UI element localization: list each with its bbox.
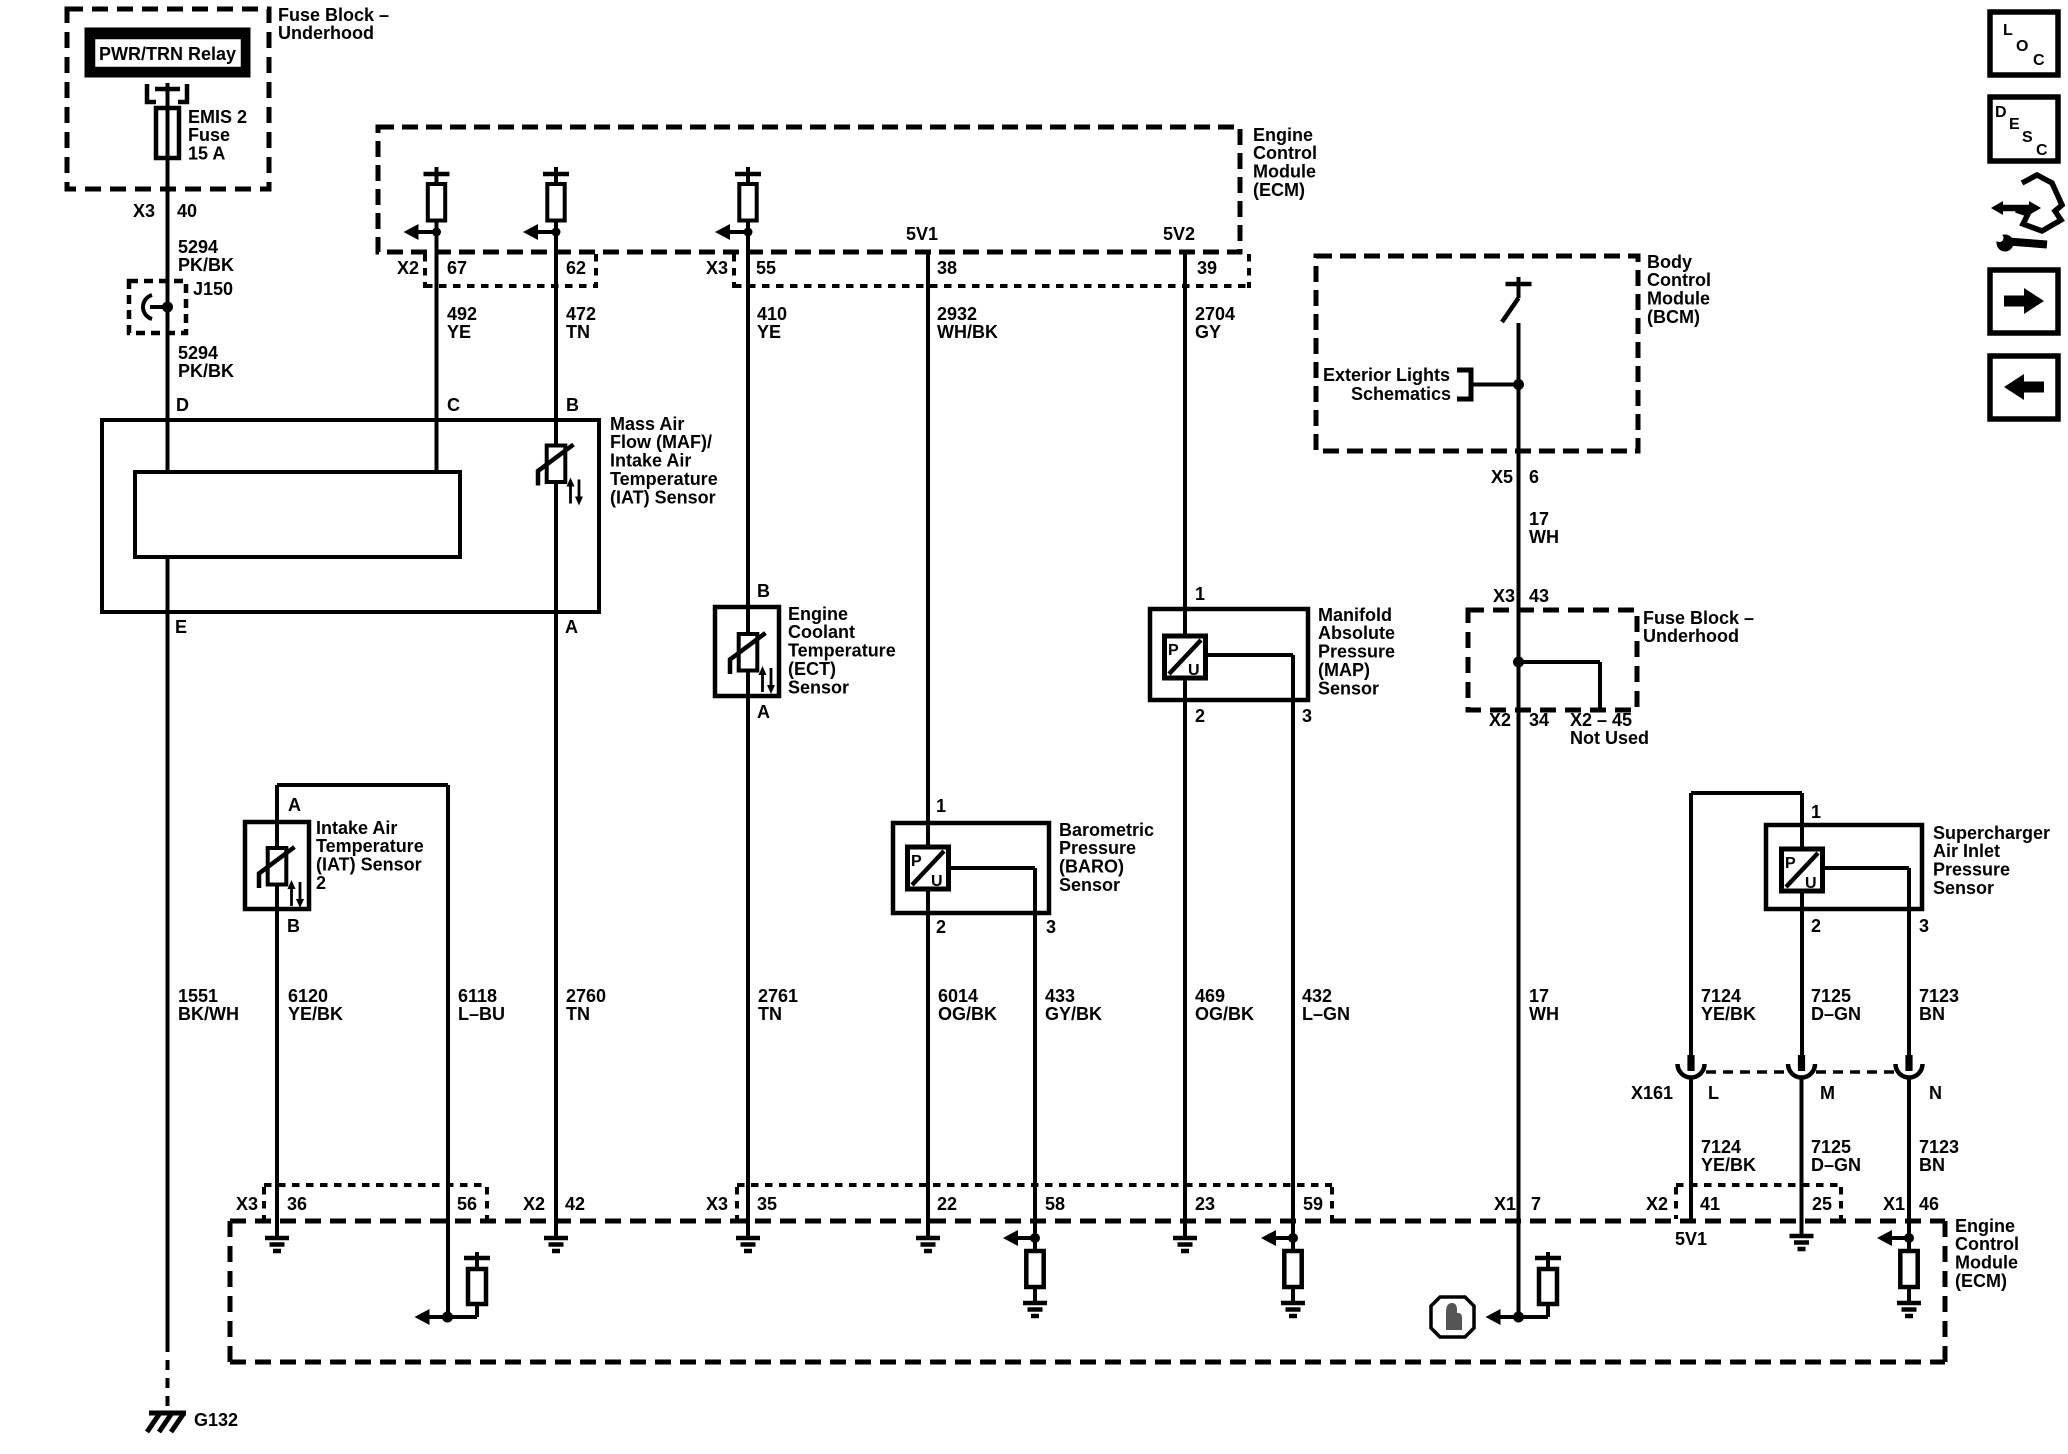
ECM driver symbol 67 bbox=[435, 167, 439, 184]
svg-text:59: 59 bbox=[1303, 1194, 1323, 1214]
svg-text:7: 7 bbox=[1531, 1194, 1541, 1214]
wire 469 OG/BK bbox=[1183, 676, 1187, 1236]
svg-text:Module: Module bbox=[1955, 1253, 2018, 1273]
svg-text:7125: 7125 bbox=[1811, 986, 1851, 1006]
resistor and arrow at 56 bbox=[429, 1315, 478, 1319]
svg-text:Pressure: Pressure bbox=[1933, 860, 2010, 880]
svg-text:Module: Module bbox=[1253, 162, 1316, 182]
svg-text:43: 43 bbox=[1529, 586, 1549, 606]
svg-text:2932: 2932 bbox=[937, 304, 977, 324]
svg-text:O: O bbox=[2016, 38, 2028, 55]
connector X161 N bbox=[1905, 1055, 1912, 1071]
svg-text:GY: GY bbox=[1195, 322, 1221, 342]
svg-text:Body: Body bbox=[1647, 252, 1692, 272]
svg-text:Air Inlet: Air Inlet bbox=[1933, 841, 2000, 861]
svg-text:3: 3 bbox=[1046, 917, 1056, 937]
svg-text:TN: TN bbox=[758, 1004, 782, 1024]
svg-text:N: N bbox=[1929, 1083, 1942, 1103]
P/U transducer BARO bbox=[908, 847, 949, 889]
fuse block underhood box bbox=[67, 9, 269, 189]
svg-text:2761: 2761 bbox=[758, 986, 798, 1006]
svg-text:55: 55 bbox=[756, 258, 776, 278]
svg-text:5V1: 5V1 bbox=[1675, 1229, 1707, 1249]
icon DESC bbox=[1990, 97, 2058, 161]
svg-text:(ECT): (ECT) bbox=[788, 659, 836, 679]
svg-text:Supercharger: Supercharger bbox=[1933, 823, 2050, 843]
svg-text:P: P bbox=[911, 853, 922, 870]
wire 492 YE bbox=[435, 252, 439, 472]
svg-text:1: 1 bbox=[1811, 802, 1821, 822]
ground at 22 bbox=[916, 1236, 940, 1241]
svg-text:2760: 2760 bbox=[566, 986, 606, 1006]
svg-text:S: S bbox=[2022, 129, 2033, 146]
wire 7125 D-GN bbox=[1800, 891, 1804, 1056]
svg-text:PWR/TRN Relay: PWR/TRN Relay bbox=[99, 44, 236, 64]
svg-text:492: 492 bbox=[447, 304, 477, 324]
svg-text:Engine: Engine bbox=[1955, 1216, 2015, 1236]
svg-text:36: 36 bbox=[287, 1194, 307, 1214]
icon arrow left bbox=[1990, 356, 2058, 419]
wire 472 TN bbox=[554, 252, 558, 445]
svg-text:6: 6 bbox=[1529, 467, 1539, 487]
svg-text:L: L bbox=[1708, 1083, 1719, 1103]
wire 1551 BK/WH bbox=[166, 557, 170, 1342]
ground at 36 bbox=[275, 1236, 279, 1237]
svg-text:Fuse: Fuse bbox=[188, 125, 230, 145]
splice J150 bbox=[129, 281, 186, 333]
svg-text:OG/BK: OG/BK bbox=[1195, 1004, 1254, 1024]
connector X161 L bbox=[1687, 1055, 1694, 1071]
svg-text:5V2: 5V2 bbox=[1163, 224, 1195, 244]
svg-text:Module: Module bbox=[1647, 289, 1710, 309]
resistor to ground at 46 bbox=[1907, 1221, 1911, 1251]
svg-text:L–BU: L–BU bbox=[458, 1004, 505, 1024]
svg-text:38: 38 bbox=[937, 258, 957, 278]
svg-text:X2 – 45: X2 – 45 bbox=[1570, 710, 1632, 730]
svg-text:(BARO): (BARO) bbox=[1059, 857, 1124, 877]
svg-text:35: 35 bbox=[757, 1194, 777, 1214]
icon connector tool bbox=[2016, 175, 2062, 231]
ECM driver symbol 62 bbox=[554, 167, 558, 184]
relay PWR/TRN bbox=[86, 29, 249, 76]
svg-text:(MAP): (MAP) bbox=[1318, 660, 1370, 680]
icon LOC bbox=[1990, 12, 2058, 75]
svg-text:Sensor: Sensor bbox=[788, 677, 849, 697]
svg-text:X2: X2 bbox=[1646, 1194, 1668, 1214]
svg-text:X3: X3 bbox=[706, 258, 728, 278]
svg-text:432: 432 bbox=[1302, 986, 1332, 1006]
svg-text:433: 433 bbox=[1045, 986, 1075, 1006]
svg-text:46: 46 bbox=[1919, 1194, 1939, 1214]
svg-text:Intake Air: Intake Air bbox=[316, 818, 397, 838]
svg-text:Not Used: Not Used bbox=[1570, 728, 1649, 748]
svg-text:WH: WH bbox=[1529, 527, 1559, 547]
P/U transducer SC bbox=[1782, 849, 1823, 891]
svg-text:X1: X1 bbox=[1883, 1194, 1905, 1214]
MAP pin3 wire bbox=[1206, 653, 1294, 657]
engine control module (ECM) box bottom bbox=[230, 1219, 1945, 1224]
svg-text:40: 40 bbox=[177, 201, 197, 221]
thermistor ECT bbox=[739, 634, 758, 671]
wire 17 WH from BCM bbox=[1517, 323, 1521, 1317]
svg-text:7125: 7125 bbox=[1811, 1137, 1851, 1157]
svg-text:P: P bbox=[1785, 855, 1796, 872]
ground at 35 bbox=[736, 1236, 760, 1241]
svg-text:X2: X2 bbox=[397, 258, 419, 278]
svg-text:C: C bbox=[447, 395, 460, 415]
resistor to ground at 59 bbox=[1291, 1221, 1295, 1251]
svg-text:Coolant: Coolant bbox=[788, 622, 855, 642]
svg-text:42: 42 bbox=[565, 1194, 585, 1214]
svg-text:(ECM): (ECM) bbox=[1955, 1271, 2007, 1291]
svg-text:X3: X3 bbox=[706, 1194, 728, 1214]
svg-text:Flow (MAF)/: Flow (MAF)/ bbox=[610, 432, 712, 452]
svg-text:58: 58 bbox=[1045, 1194, 1065, 1214]
svg-text:(ECM): (ECM) bbox=[1253, 180, 1305, 200]
svg-text:Absolute: Absolute bbox=[1318, 623, 1395, 643]
switch in BCM bbox=[1506, 282, 1532, 287]
svg-text:EMIS 2: EMIS 2 bbox=[188, 107, 247, 127]
svg-text:YE: YE bbox=[757, 322, 781, 342]
resistor to ground at 58 bbox=[1033, 1221, 1037, 1251]
BARO pin3 wire bbox=[949, 866, 1036, 870]
svg-text:Exterior Lights: Exterior Lights bbox=[1323, 365, 1450, 385]
ECM connector band X2/X3 bbox=[425, 284, 596, 288]
svg-text:A: A bbox=[565, 617, 578, 637]
svg-text:GY/BK: GY/BK bbox=[1045, 1004, 1102, 1024]
relay contact pins bbox=[147, 84, 156, 102]
svg-text:Fuse Block –: Fuse Block – bbox=[1643, 608, 1754, 628]
svg-text:6014: 6014 bbox=[938, 986, 978, 1006]
svg-text:Pressure: Pressure bbox=[1318, 642, 1395, 662]
engine control module (ECM) box top bbox=[378, 127, 1240, 252]
icon arrow right bbox=[1990, 270, 2058, 333]
thermistor in MAF bbox=[547, 446, 566, 483]
svg-text:D–GN: D–GN bbox=[1811, 1004, 1861, 1024]
svg-text:67: 67 bbox=[447, 258, 467, 278]
svg-text:X161: X161 bbox=[1631, 1083, 1673, 1103]
svg-text:Control: Control bbox=[1647, 270, 1711, 290]
svg-text:6120: 6120 bbox=[288, 986, 328, 1006]
svg-text:J150: J150 bbox=[193, 279, 233, 299]
wires below X161 bbox=[1689, 1078, 1693, 1221]
MAF element box bbox=[135, 472, 460, 557]
fuse EMIS 2 15 A bbox=[166, 89, 170, 189]
svg-text:62: 62 bbox=[566, 258, 586, 278]
svg-text:2: 2 bbox=[316, 873, 326, 893]
IAT sensor 2 box bbox=[245, 822, 309, 909]
wire 6120 YE/BK bbox=[275, 885, 279, 1237]
svg-text:Temperature: Temperature bbox=[788, 641, 896, 661]
ECM driver symbol 55 bbox=[746, 167, 750, 184]
svg-text:WH: WH bbox=[1529, 1004, 1559, 1024]
wire 5294 PK/BK bbox=[166, 189, 170, 472]
ECT sensor box bbox=[715, 607, 779, 696]
svg-text:3: 3 bbox=[1302, 706, 1312, 726]
svg-text:X3: X3 bbox=[236, 1194, 258, 1214]
svg-text:7123: 7123 bbox=[1919, 1137, 1959, 1157]
svg-text:17: 17 bbox=[1529, 986, 1549, 1006]
svg-text:U: U bbox=[931, 873, 943, 890]
svg-text:C: C bbox=[2033, 52, 2045, 69]
ground G132 bbox=[149, 1411, 186, 1416]
svg-text:Barometric: Barometric bbox=[1059, 820, 1154, 840]
svg-text:5294: 5294 bbox=[178, 237, 218, 257]
svg-text:Control: Control bbox=[1955, 1234, 2019, 1254]
svg-text:M: M bbox=[1820, 1083, 1835, 1103]
splice to X2-45 bbox=[1513, 657, 1524, 668]
svg-text:Underhood: Underhood bbox=[278, 23, 374, 43]
svg-text:Temperature: Temperature bbox=[610, 469, 718, 489]
svg-text:C: C bbox=[2036, 142, 2048, 159]
svg-text:X2: X2 bbox=[523, 1194, 545, 1214]
wire 7124 top run bbox=[1691, 791, 1802, 795]
wire 2760 TN bbox=[554, 612, 558, 1236]
svg-text:D: D bbox=[1995, 104, 2007, 121]
wire 2932 WH/BK bbox=[926, 252, 930, 847]
svg-text:D: D bbox=[176, 395, 189, 415]
svg-text:17: 17 bbox=[1529, 509, 1549, 529]
svg-text:L: L bbox=[2003, 22, 2013, 39]
svg-text:U: U bbox=[1188, 662, 1200, 679]
svg-text:D–GN: D–GN bbox=[1811, 1155, 1861, 1175]
svg-text:Sensor: Sensor bbox=[1933, 878, 1994, 898]
svg-text:Sensor: Sensor bbox=[1059, 875, 1120, 895]
svg-text:22: 22 bbox=[937, 1194, 957, 1214]
svg-text:Engine: Engine bbox=[788, 604, 848, 624]
svg-text:2704: 2704 bbox=[1195, 304, 1235, 324]
svg-text:25: 25 bbox=[1812, 1194, 1832, 1214]
svg-text:(IAT) Sensor: (IAT) Sensor bbox=[316, 855, 422, 875]
svg-text:YE: YE bbox=[447, 322, 471, 342]
svg-text:469: 469 bbox=[1195, 986, 1225, 1006]
svg-text:(BCM): (BCM) bbox=[1647, 307, 1700, 327]
svg-text:5V1: 5V1 bbox=[906, 224, 938, 244]
svg-text:PK/BK: PK/BK bbox=[178, 255, 234, 275]
svg-text:PK/BK: PK/BK bbox=[178, 361, 234, 381]
svg-text:YE/BK: YE/BK bbox=[288, 1004, 343, 1024]
svg-text:5294: 5294 bbox=[178, 343, 218, 363]
wire 6118 loop over IAT2 bbox=[275, 785, 279, 848]
svg-text:Fuse Block –: Fuse Block – bbox=[278, 5, 389, 25]
svg-text:2: 2 bbox=[936, 917, 946, 937]
svg-text:X3: X3 bbox=[133, 201, 155, 221]
svg-text:Underhood: Underhood bbox=[1643, 626, 1739, 646]
supercharger air inlet pressure sensor box bbox=[1766, 825, 1922, 909]
fuse block underhood box 2 bbox=[1468, 610, 1637, 710]
BARO sensor box bbox=[893, 823, 1049, 913]
svg-text:BN: BN bbox=[1919, 1155, 1945, 1175]
ground at 42 bbox=[544, 1236, 568, 1241]
svg-text:WH/BK: WH/BK bbox=[937, 322, 998, 342]
svg-text:472: 472 bbox=[566, 304, 596, 324]
svg-text:34: 34 bbox=[1529, 710, 1549, 730]
svg-text:2: 2 bbox=[1195, 706, 1205, 726]
svg-text:1: 1 bbox=[1195, 584, 1205, 604]
svg-text:Manifold: Manifold bbox=[1318, 605, 1392, 625]
svg-text:X2: X2 bbox=[1489, 710, 1511, 730]
svg-text:E: E bbox=[2009, 116, 2020, 133]
MAP sensor box bbox=[1150, 609, 1308, 700]
svg-text:B: B bbox=[757, 581, 770, 601]
svg-text:2: 2 bbox=[1811, 916, 1821, 936]
bracket to exterior lights bbox=[1457, 370, 1471, 399]
svg-text:E: E bbox=[175, 617, 187, 637]
ground at 23 bbox=[1173, 1236, 1197, 1241]
wire 6014 OG/BK bbox=[926, 889, 930, 1236]
svg-text:TN: TN bbox=[566, 1004, 590, 1024]
svg-text:BK/WH: BK/WH bbox=[178, 1004, 239, 1024]
svg-text:7123: 7123 bbox=[1919, 986, 1959, 1006]
svg-text:3: 3 bbox=[1919, 916, 1929, 936]
ground at 25 bbox=[1790, 1234, 1814, 1239]
wire 410 YE bbox=[746, 252, 750, 607]
svg-text:39: 39 bbox=[1197, 258, 1217, 278]
svg-text:TN: TN bbox=[566, 322, 590, 342]
svg-text:P: P bbox=[1168, 642, 1179, 659]
bottom connector band dots bbox=[264, 1183, 487, 1187]
svg-text:A: A bbox=[757, 702, 770, 722]
svg-text:U: U bbox=[1805, 875, 1817, 892]
resistor and arrow at X1 7 bbox=[1500, 1315, 1549, 1319]
svg-text:L–GN: L–GN bbox=[1302, 1004, 1350, 1024]
svg-text:Sensor: Sensor bbox=[1318, 678, 1379, 698]
svg-text:Intake Air: Intake Air bbox=[610, 451, 691, 471]
MAF sensor outer box bbox=[102, 420, 599, 612]
svg-text:7124: 7124 bbox=[1701, 986, 1741, 1006]
svg-text:15 A: 15 A bbox=[188, 144, 225, 164]
svg-text:A: A bbox=[288, 795, 301, 815]
SC pin3 wire bbox=[1823, 866, 1910, 870]
svg-text:X5: X5 bbox=[1491, 467, 1513, 487]
body control module (BCM) box bbox=[1316, 256, 1638, 451]
wire 2704 GY bbox=[1183, 252, 1187, 636]
svg-text:7124: 7124 bbox=[1701, 1137, 1741, 1157]
svg-text:B: B bbox=[566, 395, 579, 415]
svg-text:(IAT) Sensor: (IAT) Sensor bbox=[610, 487, 716, 507]
connector X161 M bbox=[1798, 1055, 1805, 1071]
svg-text:410: 410 bbox=[757, 304, 787, 324]
svg-text:X1: X1 bbox=[1494, 1194, 1516, 1214]
svg-text:Engine: Engine bbox=[1253, 125, 1313, 145]
svg-text:1: 1 bbox=[936, 796, 946, 816]
svg-text:BN: BN bbox=[1919, 1004, 1945, 1024]
svg-text:Temperature: Temperature bbox=[316, 836, 424, 856]
svg-text:OG/BK: OG/BK bbox=[938, 1004, 997, 1024]
svg-text:X3: X3 bbox=[1493, 586, 1515, 606]
svg-text:YE/BK: YE/BK bbox=[1701, 1155, 1756, 1175]
svg-text:1551: 1551 bbox=[178, 986, 218, 1006]
svg-text:Mass Air: Mass Air bbox=[610, 414, 684, 434]
svg-text:B: B bbox=[287, 916, 300, 936]
wire 2761 TN bbox=[746, 696, 750, 1236]
svg-text:Pressure: Pressure bbox=[1059, 838, 1136, 858]
X161 dashes bbox=[1706, 1070, 1787, 1074]
svg-text:Schematics: Schematics bbox=[1351, 384, 1451, 404]
thermistor IAT2 bbox=[268, 848, 287, 885]
P/U transducer MAP bbox=[1165, 636, 1206, 678]
svg-text:G132: G132 bbox=[194, 1410, 238, 1430]
svg-text:6118: 6118 bbox=[458, 986, 497, 1006]
svg-text:41: 41 bbox=[1700, 1194, 1720, 1214]
svg-text:YE/BK: YE/BK bbox=[1701, 1004, 1756, 1024]
octagon hand icon bbox=[1431, 1297, 1474, 1337]
svg-text:23: 23 bbox=[1195, 1194, 1215, 1214]
svg-text:Control: Control bbox=[1253, 143, 1317, 163]
svg-text:56: 56 bbox=[457, 1194, 477, 1214]
